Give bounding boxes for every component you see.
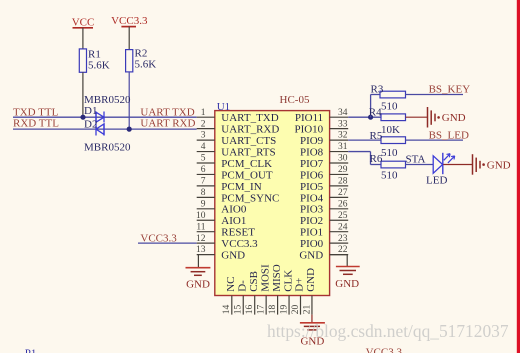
svg-text:PIO10: PIO10 [294,124,323,136]
svg-text:510: 510 [381,169,398,181]
svg-text:33: 33 [338,119,348,129]
svg-text:GND: GND [221,250,245,262]
svg-text:34: 34 [338,108,348,118]
svg-text:R3: R3 [371,83,384,95]
svg-text:P1: P1 [25,348,37,353]
svg-text:25: 25 [338,211,348,221]
svg-text:4: 4 [201,142,206,152]
svg-text:19: 19 [279,304,289,314]
pin 2 UART_RXD [197,119,280,135]
pin 33 PIO10 [294,119,348,135]
svg-text:CSB: CSB [248,271,260,292]
svg-text:PCM_SYNC: PCM_SYNC [221,192,279,204]
svg-text:21: 21 [302,304,312,314]
svg-text:GND: GND [487,159,511,171]
svg-text:17: 17 [256,304,266,314]
svg-text:10K: 10K [381,124,400,136]
pin 32 PIO9 [300,131,348,147]
svg-text:12: 12 [196,234,206,244]
svg-text:30: 30 [338,154,348,164]
svg-text:13: 13 [196,245,206,255]
svg-text:LED: LED [426,175,447,187]
svg-text:PIO2: PIO2 [300,215,323,227]
svg-text:PCM_IN: PCM_IN [221,181,261,193]
svg-text:UART_CTS: UART_CTS [221,135,276,147]
svg-text:PIO6: PIO6 [300,169,324,181]
svg-text:11: 11 [196,222,205,232]
pin 16 CSB [245,271,260,315]
power VCC [72,17,95,49]
pin 10 AIO1 [196,211,246,227]
svg-text:MBR0520: MBR0520 [84,142,131,154]
svg-text:28: 28 [338,177,348,187]
resistor R6 510 [370,153,406,182]
svg-text:UART RXD: UART RXD [140,118,195,130]
ground GND right of R4 [428,107,466,128]
pin 19 CLK [279,270,294,315]
svg-text:29: 29 [338,165,348,175]
svg-text:26: 26 [338,199,348,209]
svg-text:D+: D+ [294,278,306,292]
wire pin34 to junction and R4 [348,116,381,118]
pin 1 UART_TXD [197,108,279,124]
svg-text:R5: R5 [370,130,383,142]
pin 26 PIO3 [300,199,348,215]
svg-text:PIO1: PIO1 [300,227,323,239]
diode D1 MBR0520 [96,112,104,123]
svg-text:STA: STA [406,153,426,165]
svg-text:HC-05: HC-05 [280,94,310,106]
svg-text:UART_RXD: UART_RXD [221,124,279,136]
svg-text:UART_RTS: UART_RTS [221,146,275,158]
svg-text:2: 2 [201,119,206,129]
svg-text:D-: D- [236,280,248,292]
ground GND pin22 [330,255,360,290]
resistor R3 510 [371,83,406,112]
svg-text:VCC3.3: VCC3.3 [140,233,177,245]
svg-text:AIO0: AIO0 [221,204,247,216]
svg-text:BS_KEY: BS_KEY [429,84,471,96]
svg-text:32: 32 [338,131,348,141]
svg-text:PIO11: PIO11 [295,112,323,124]
svg-text:31: 31 [338,142,348,152]
pin 13 GND [196,245,245,261]
svg-text:PIO4: PIO4 [300,192,324,204]
svg-text:GND: GND [186,278,210,290]
pin 25 PIO2 [300,211,348,227]
svg-text:23: 23 [338,234,348,244]
wire TXD TTL / UART_TXD net [13,116,197,118]
pin 18 MISO [268,264,283,314]
svg-text:PIO5: PIO5 [300,181,324,193]
wire pin31 down to R6 [348,152,381,165]
sheet border (red) [517,0,520,353]
pin 12 VCC3.3 [196,234,258,250]
pin 17 MOSI [256,264,271,315]
pin 27 PIO4 [300,188,348,204]
svg-text:PIO7: PIO7 [300,158,324,170]
svg-text:MBR0520: MBR0520 [84,94,131,106]
pin 20 D+ [291,278,306,315]
pin 23 PIO0 [300,234,348,250]
wire R3 to BS_KEY [406,94,464,96]
ground GND pin13 [186,255,211,291]
wire LED to ground [443,164,472,166]
svg-text:7: 7 [201,177,206,187]
wire RXD TTL / UART_RXD net [13,128,197,130]
pin 8 PCM_SYNC [197,188,280,204]
svg-text:6: 6 [201,165,206,175]
svg-text:D1: D1 [84,105,97,117]
resistor R1 [79,49,109,73]
svg-text:RXD TTL: RXD TTL [13,118,59,130]
svg-text:D2: D2 [84,119,97,131]
svg-text:5.6K: 5.6K [88,60,110,72]
ground GND right of LED [473,154,511,175]
svg-text:GND: GND [299,250,323,262]
svg-text:1: 1 [201,108,206,118]
svg-text:https://blog.csdn.net/qq_51712: https://blog.csdn.net/qq_51712037 [267,321,509,341]
svg-text:27: 27 [338,188,348,198]
svg-text:8: 8 [201,188,206,198]
pin 24 PIO1 [300,222,348,238]
svg-text:5.6K: 5.6K [135,59,157,71]
svg-text:510: 510 [381,101,398,113]
svg-text:UART_TXD: UART_TXD [221,112,278,124]
resistor R2 [126,48,157,72]
svg-text:VCC: VCC [72,17,95,29]
svg-text:GND: GND [335,278,359,290]
wire R1 bottom lead [82,72,84,117]
pin 11 RESET [196,222,255,238]
wire R2 bottom lead [128,72,130,129]
pin 15 D- [234,280,249,315]
svg-text:MOSI: MOSI [259,264,271,292]
pin 21 GND [302,268,317,315]
pin 29 PIO6 [300,165,348,181]
svg-text:UART TXD: UART TXD [140,106,194,118]
pin 31 PIO8 [300,142,348,158]
svg-text:PCM_OUT: PCM_OUT [221,169,273,181]
svg-text:15: 15 [234,304,244,314]
pin 7 PCM_IN [197,177,262,193]
ground GND pin21 [300,315,325,348]
svg-text:RESET: RESET [221,227,255,239]
diode D2 MBR0520 [96,123,104,135]
svg-text:GND: GND [305,268,317,292]
pin 4 UART_RTS [197,142,276,158]
IC U1 HC-05 [215,111,330,296]
svg-text:CLK: CLK [282,270,294,292]
svg-text:R6: R6 [370,153,383,165]
svg-text:MISO: MISO [271,264,283,292]
wire pin32 to R5 [348,139,381,141]
pin 28 PIO5 [300,177,348,193]
power VCC3.3 [111,15,148,50]
pin 6 PCM_OUT [197,165,273,181]
svg-text:PCM_CLK: PCM_CLK [221,158,272,170]
svg-text:5: 5 [201,154,206,164]
svg-text:10: 10 [196,211,206,221]
svg-text:TXD TTL: TXD TTL [13,106,59,118]
pin 34 PIO11 [295,108,348,124]
svg-text:R4: R4 [369,107,382,119]
node junction pin34 [368,115,373,120]
wire R5 to BS_LED [406,139,464,141]
svg-text:VCC3.3: VCC3.3 [221,238,258,250]
svg-text:22: 22 [338,245,348,255]
wire junction up to R3 [371,95,380,118]
pin 30 PIO7 [300,154,348,170]
pin 14 NC [222,277,237,315]
svg-text:GND: GND [442,112,466,124]
pin 5 PCM_CLK [197,154,272,170]
svg-text:3: 3 [201,131,206,141]
pin 9 AIO0 [197,199,247,215]
pin 22 GND [299,245,348,261]
svg-text:VCC3.3: VCC3.3 [111,15,148,27]
resistor R5 510 [370,130,406,159]
svg-text:16: 16 [245,304,255,314]
wire VCC3.3 to pin 12 [138,242,197,244]
node junction R2-RXD [127,127,132,132]
svg-text:PIO9: PIO9 [300,135,324,147]
wire R4 to ground [406,116,428,118]
LED D3 [433,153,455,174]
svg-text:NC: NC [225,277,237,292]
svg-text:BS_LED: BS_LED [429,130,469,142]
svg-text:9: 9 [201,199,206,209]
svg-text:18: 18 [268,304,278,314]
svg-text:20: 20 [291,304,301,314]
svg-text:PIO3: PIO3 [300,204,324,216]
svg-text:510: 510 [381,147,398,159]
pin 3 UART_CTS [197,131,277,147]
svg-text:PIO0: PIO0 [300,238,324,250]
resistor R4 10K [369,107,406,137]
svg-text:PIO8: PIO8 [300,146,324,158]
svg-text:24: 24 [338,222,348,232]
svg-text:VCC3.3: VCC3.3 [366,346,403,353]
svg-text:AIO1: AIO1 [221,215,246,227]
node junction R1-TXD [80,115,85,120]
svg-text:14: 14 [222,304,232,314]
wire R6 to LED (net STA) [406,164,434,166]
